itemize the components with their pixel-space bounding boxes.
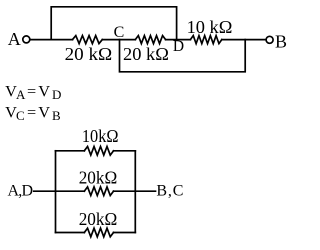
svg-text:B: B [275, 31, 287, 51]
svg-text:A: A [16, 87, 26, 102]
svg-text:V: V [38, 102, 50, 121]
svg-text:10kΩ: 10kΩ [82, 126, 119, 146]
svg-text:20 kΩ: 20 kΩ [65, 44, 113, 64]
svg-text:B,C: B,C [156, 183, 183, 200]
svg-text:C: C [114, 24, 125, 41]
svg-text:20kΩ: 20kΩ [79, 167, 118, 187]
svg-text:A: A [8, 29, 21, 49]
svg-text:D: D [52, 87, 61, 102]
svg-text:C: C [16, 108, 25, 123]
svg-text:=: = [27, 102, 36, 121]
svg-text:20 kΩ: 20 kΩ [123, 44, 169, 64]
svg-text:10 kΩ: 10 kΩ [187, 17, 233, 37]
svg-text:V: V [38, 81, 50, 100]
svg-text:B: B [52, 108, 61, 123]
svg-text:A,D: A,D [8, 183, 34, 200]
svg-text:D: D [173, 38, 184, 55]
svg-text:20kΩ: 20kΩ [79, 209, 118, 229]
svg-text:=: = [27, 81, 36, 100]
